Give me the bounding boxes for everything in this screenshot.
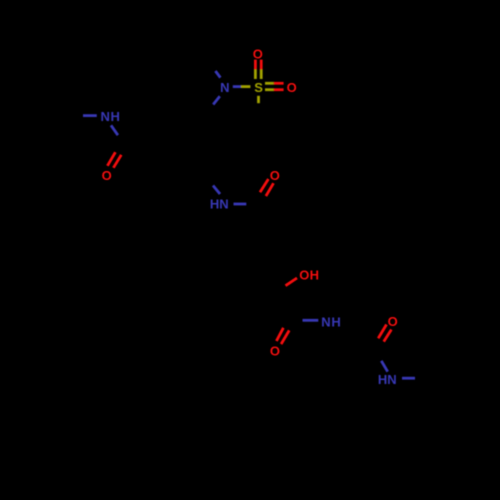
double bond S=O right line a red xyxy=(274,82,284,85)
double bond C=O amide1 line b xyxy=(113,155,121,168)
double bond C=O amide3 line b xyxy=(281,330,289,344)
double bond C=O amide4 line b xyxy=(384,330,392,342)
double bond S=O top line b yellow xyxy=(260,69,263,79)
svg-text:O: O xyxy=(287,80,297,95)
bond N5-cyclohexyl (blue half) xyxy=(402,377,415,380)
svg-text:OH: OH xyxy=(299,268,319,283)
bond ring-N3 (blue half) xyxy=(213,186,220,195)
double bond C=O amide2 line b xyxy=(266,183,274,196)
double bond S=O top line a red xyxy=(254,60,257,70)
double bond C=O amide4 line a xyxy=(378,325,386,339)
svg-text:HN: HN xyxy=(210,196,229,211)
bond N1-C carbonyl (blue half) xyxy=(111,125,118,135)
bond N2-S yellow half xyxy=(241,85,251,88)
bond C carbonyl-N4 (blue half) xyxy=(303,319,319,322)
svg-text:HN: HN xyxy=(378,372,397,387)
bond N1-cyclohexyl (blue half) xyxy=(83,114,97,117)
bond S-CH3 (yellow half) xyxy=(257,96,260,103)
bond N2-S blue half xyxy=(233,85,241,88)
double bond S=O top line b red xyxy=(260,60,263,70)
svg-text:O: O xyxy=(270,168,280,183)
double bond S=O right line b red xyxy=(274,88,284,91)
bond C-OH (red half) xyxy=(286,278,298,286)
svg-text:N: N xyxy=(220,80,229,95)
double bond S=O top line a yellow xyxy=(254,69,257,79)
svg-text:NH: NH xyxy=(100,109,120,124)
bond C carbonyl-N5 (blue half) xyxy=(381,361,387,372)
bond N3-C carbonyl (blue half) xyxy=(234,203,247,206)
double bond C=O amide1 line a xyxy=(107,152,115,166)
double bond S=O right line a yellow xyxy=(265,82,274,85)
double bond S=O right line b yellow xyxy=(265,88,274,91)
svg-text:O: O xyxy=(388,314,398,329)
svg-text:NH: NH xyxy=(321,314,341,329)
svg-text:O: O xyxy=(253,47,263,62)
svg-text:S: S xyxy=(254,80,263,95)
double bond C=O amide3 line a xyxy=(276,328,283,341)
svg-text:O: O xyxy=(102,168,112,183)
double bond C=O amide2 line a xyxy=(260,179,268,192)
svg-text:O: O xyxy=(270,344,280,359)
bond N2-methyl (blue half) xyxy=(215,71,220,78)
bond N2-ring (blue half) xyxy=(213,96,220,104)
